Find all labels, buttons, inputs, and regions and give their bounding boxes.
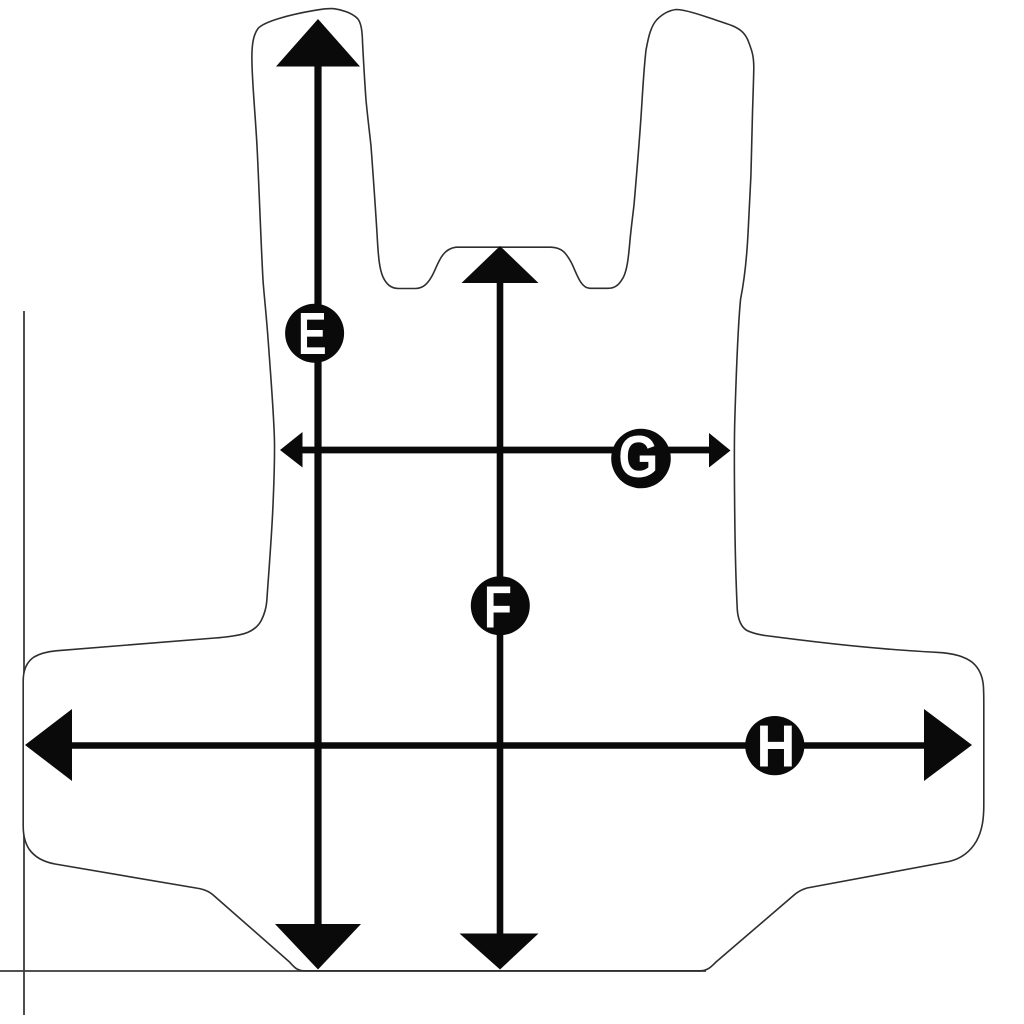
label F circle [471,576,530,635]
arrow H left head [25,709,72,781]
arrow H right head [924,709,972,781]
arrow G shaft [298,447,712,454]
arrow F top head [462,246,539,283]
svg-text:F: F [484,575,512,641]
label E circle [285,304,344,363]
arrow G right head [709,433,731,468]
svg-text:G: G [618,424,658,490]
arrow E top head [276,19,360,67]
axis horizontal baseline [0,970,706,972]
arrow E shaft [314,62,321,928]
arrow E bottom head [275,924,361,970]
svg-text:H: H [756,713,795,779]
arrow F shaft [497,280,504,938]
arrow F bottom head [460,934,539,970]
arrow H shaft [68,742,928,749]
label G circle [611,429,671,489]
label H circle [745,716,804,775]
svg-text:E: E [298,300,327,366]
arrow G left head [280,432,303,468]
axis vertical line [23,311,25,1015]
